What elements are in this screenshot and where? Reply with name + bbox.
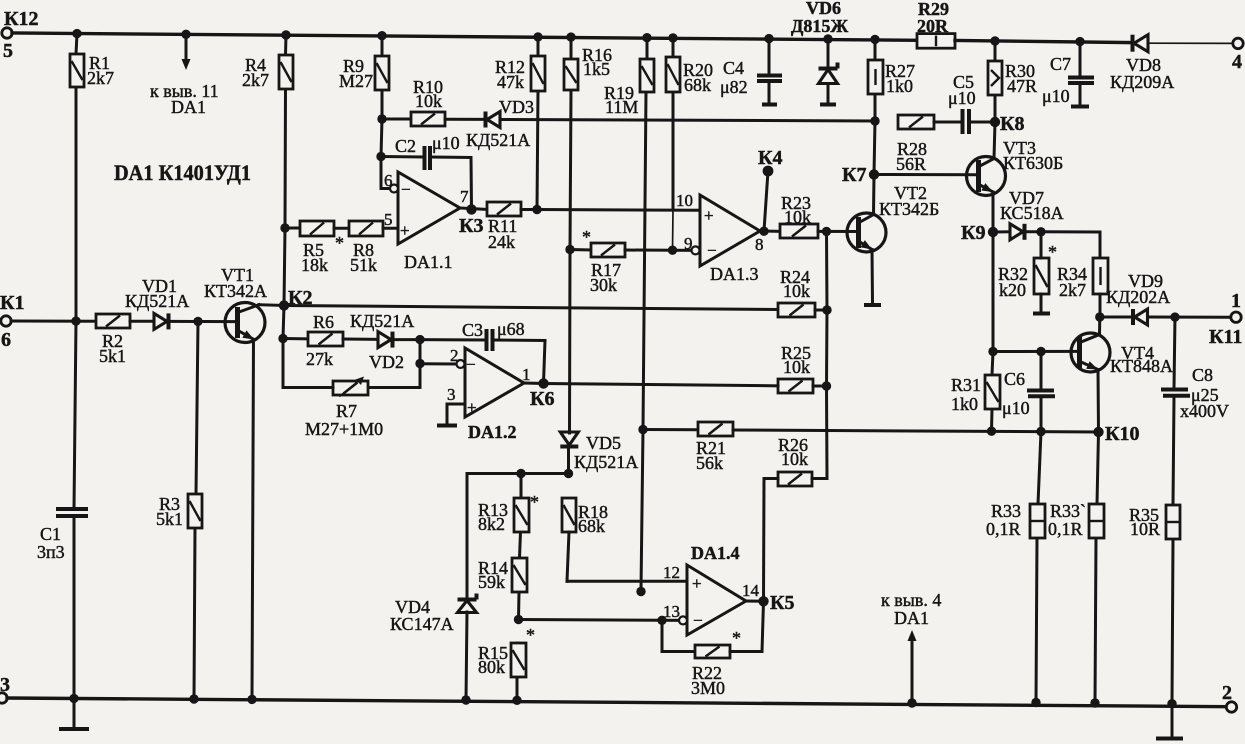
- svg-text:к выв. 4: к выв. 4: [881, 590, 941, 610]
- wire R6 left: [283, 337, 308, 340]
- svg-text:К3: К3: [459, 215, 484, 237]
- capacitor C1 3п3: [37, 509, 88, 562]
- wire C5 to K8: [970, 121, 995, 124]
- wire R7 left corner: [283, 386, 333, 389]
- resistor R5 18k: [300, 221, 344, 275]
- wire bottom bus: [7, 698, 1227, 707]
- wire C2 left: [381, 155, 423, 159]
- node junction VD5/R18/R13 wire: [564, 469, 573, 478]
- node junction R33` / bottom bus: [1090, 698, 1099, 707]
- diode VD2 КД521А: [350, 311, 414, 372]
- svg-text:КТ630Б: КТ630Б: [1003, 153, 1063, 173]
- node junction VD6/top bus: [823, 34, 832, 43]
- terminal 3: [0, 674, 10, 703]
- svg-text:μ10: μ10: [1042, 86, 1070, 106]
- wire DA1.1 output: [460, 187, 487, 209]
- svg-text:14: 14: [742, 581, 760, 600]
- terminal 1 (K11): [1209, 290, 1242, 348]
- node junction R20/top bus: [668, 33, 677, 42]
- svg-text:5: 5: [3, 40, 13, 62]
- wire R33` branch: [1095, 432, 1099, 703]
- resistor R9 М27: [339, 56, 389, 91]
- resistor R6 27k: [306, 312, 343, 369]
- wire VD6 branch: [827, 39, 830, 103]
- node junction R34/VD9/VT4 collector: [1095, 312, 1104, 321]
- svg-text:51k: 51k: [350, 255, 377, 275]
- svg-text:−: −: [401, 180, 411, 199]
- wire VT2 emitter: [860, 240, 873, 303]
- svg-text:5: 5: [384, 210, 393, 229]
- svg-text:8k2: 8k2: [478, 514, 505, 534]
- transistor VT1 КТ342А: [204, 265, 267, 343]
- svg-text:DA1: DA1: [171, 97, 206, 117]
- resistor R4 2k7: [242, 55, 293, 90]
- svg-text:C7: C7: [1050, 54, 1071, 74]
- wire R33 branch: [1036, 432, 1041, 703]
- diode VD7 КС518А: [1000, 188, 1064, 240]
- svg-text:C2: C2: [395, 136, 416, 156]
- resistor R21 56k: [696, 422, 733, 473]
- terminal K1 (pin 6): [0, 292, 25, 351]
- wire R17 to DA1.3 pin9: [625, 234, 693, 253]
- node junction VD4 / bottom bus: [461, 695, 470, 704]
- svg-text:КД521А: КД521А: [125, 291, 189, 311]
- svg-text:12: 12: [663, 563, 680, 582]
- ground stub below VD6: [820, 103, 836, 107]
- svg-text:C8: C8: [1192, 365, 1213, 385]
- resistor R7 М27+1М0: [305, 381, 383, 439]
- node K7: [842, 164, 879, 186]
- wire VD2 to C3 junction: [394, 338, 420, 341]
- svg-text:*: *: [526, 625, 535, 645]
- svg-text:5k1: 5k1: [156, 509, 183, 529]
- diode VD9 КД202А: [1106, 271, 1170, 325]
- svg-text:56k: 56k: [696, 453, 723, 473]
- wire R21 left: [643, 428, 698, 431]
- svg-text:C1: C1: [40, 524, 61, 544]
- svg-text:80k: 80k: [478, 657, 505, 677]
- wire R12 vertical line: [537, 37, 538, 210]
- resistor R24 10k: [778, 267, 815, 317]
- svg-text:C6: C6: [1004, 369, 1025, 389]
- resistor R33 0,1R: [986, 501, 1045, 539]
- svg-text:10k: 10k: [783, 357, 810, 377]
- resistor R35 10R: [1129, 505, 1180, 539]
- resistor R3 5k1: [156, 494, 202, 529]
- wire K6 to R25 (long line): [544, 384, 779, 386]
- svg-text:+: +: [400, 221, 410, 240]
- svg-text:К6: К6: [530, 388, 555, 410]
- node junction C1 line / bottom bus: [69, 694, 78, 703]
- svg-text:К5: К5: [770, 592, 795, 614]
- wire DA1.3 pin9 circle: [692, 246, 700, 254]
- svg-text:68k: 68k: [684, 75, 711, 95]
- svg-text:18k: 18k: [301, 255, 328, 275]
- node junction VT4 base line: [988, 347, 997, 356]
- diode VD5 КД521А: [560, 432, 638, 472]
- diode VD3 КД521А: [466, 97, 534, 150]
- node K4: [758, 147, 783, 176]
- wire feedback loop R22: [662, 620, 695, 651]
- wire R7 right: [368, 386, 420, 389]
- svg-text:6: 6: [1, 329, 11, 351]
- resistor R15 80k: [478, 625, 535, 677]
- capacitor C4 μ82: [720, 58, 782, 97]
- node K10: [1093, 423, 1139, 445]
- svg-text:R6: R6: [313, 312, 334, 332]
- resistor R17 30k: [590, 243, 625, 295]
- svg-text:8: 8: [755, 235, 764, 254]
- wire VT2 collector: [860, 175, 874, 223]
- terminal 2: [1222, 682, 1237, 712]
- wire DA1.2 output: [522, 365, 544, 384]
- node junction C8 tap: [1170, 312, 1179, 321]
- svg-text:R7: R7: [336, 401, 357, 421]
- svg-text:k20: k20: [999, 280, 1026, 300]
- svg-text:КД521А: КД521А: [350, 311, 414, 331]
- svg-text:КТ848А: КТ848А: [1110, 356, 1173, 376]
- op-amp DA1.3: [700, 195, 760, 284]
- node junction C6 bottom: [1036, 427, 1045, 436]
- svg-text:C4: C4: [723, 58, 744, 78]
- wire VD8 to terminal 4: [1150, 42, 1233, 44]
- svg-text:VD3: VD3: [499, 97, 534, 117]
- node junction R24 / R23-R26 line: [822, 305, 831, 314]
- node junction R19/top bus: [642, 33, 651, 42]
- wire DA1.1 pin6 input: [381, 171, 398, 193]
- node K6: [530, 378, 555, 410]
- wire R20 vertical line: [671, 38, 675, 250]
- svg-text:DA1.3: DA1.3: [710, 264, 759, 284]
- wire R25 right: [813, 385, 827, 388]
- resistor R30 47R: [988, 61, 1037, 96]
- wire R27 vertical line: [874, 39, 875, 174]
- svg-text:КС518А: КС518А: [1000, 203, 1064, 223]
- svg-text:КТ342Б: КТ342Б: [879, 199, 939, 219]
- svg-text:К11: К11: [1209, 326, 1242, 348]
- zener diode VD4 КС147А: [390, 594, 477, 635]
- wire R8 to DA1.1 pin5: [383, 210, 398, 229]
- wire top bus right segment: [955, 41, 1132, 43]
- svg-text:10k: 10k: [781, 449, 808, 469]
- wire R2 to VD1: [130, 320, 154, 323]
- svg-text:μ82: μ82: [720, 77, 748, 97]
- svg-text:C3: C3: [462, 320, 483, 340]
- svg-text:2k7: 2k7: [242, 70, 269, 90]
- resistor R25 10k: [778, 343, 813, 393]
- wire R23-R26 vertical line: [825, 231, 829, 478]
- node junction C6 top: [1036, 347, 1045, 356]
- wire K1 to R2: [11, 320, 96, 323]
- svg-text:10R: 10R: [1130, 519, 1160, 539]
- node junction C7/top bus: [1075, 37, 1084, 46]
- wire VD1 to VT1 base: [170, 320, 236, 323]
- resistor R31 1k0: [951, 375, 1000, 414]
- svg-text:1: 1: [522, 365, 531, 384]
- svg-text:μ10: μ10: [948, 88, 976, 108]
- node junction R4/top bus: [281, 30, 290, 39]
- node K9: [961, 222, 998, 244]
- svg-text:11М: 11М: [605, 97, 638, 117]
- node junction R9/top bus: [377, 31, 386, 40]
- svg-text:4: 4: [1232, 51, 1242, 73]
- svg-text:М27+1М0: М27+1М0: [305, 419, 383, 439]
- wire R32 bottom + stub: [1033, 294, 1050, 314]
- svg-text:КД202А: КД202А: [1106, 287, 1170, 307]
- diode VD8 КД209А: [1110, 35, 1174, 92]
- svg-text:56R: 56R: [896, 154, 926, 174]
- node junction DA1.3 output / K4: [759, 227, 768, 236]
- svg-text:10: 10: [676, 191, 693, 210]
- resistor R13 8k2: [478, 492, 539, 534]
- node junction R23 right: [822, 227, 831, 236]
- wire R28 to C5: [934, 121, 961, 124]
- svg-text:R33: R33: [991, 501, 1021, 521]
- svg-text:1k5: 1k5: [583, 59, 610, 79]
- svg-text:*: *: [732, 628, 741, 648]
- node junction R25 / R23-R26 line: [822, 381, 831, 390]
- wire R7 branch vertical: [419, 364, 422, 388]
- svg-text:Д815Ж: Д815Ж: [791, 16, 848, 36]
- node junction K1 wire / R1 line: [71, 316, 80, 325]
- svg-text:24k: 24k: [488, 232, 515, 252]
- svg-text:1: 1: [1231, 290, 1241, 312]
- wire C8 branch: [1172, 317, 1175, 736]
- diode VD1 КД521А: [125, 276, 189, 329]
- wire DA1.4 output: [742, 581, 764, 601]
- svg-text:КД209А: КД209А: [1110, 72, 1174, 92]
- svg-text:К4: К4: [758, 147, 783, 169]
- node K3 (DA1.1 output): [459, 204, 484, 237]
- capacitor C2 μ10: [395, 133, 460, 170]
- resistor R18 68k: [562, 498, 608, 536]
- svg-text:μ68: μ68: [497, 319, 525, 339]
- resistor R23 10k: [780, 193, 818, 238]
- resistor R32 k20: [998, 242, 1057, 300]
- svg-text:2: 2: [1222, 682, 1232, 704]
- arrow to pin 11 DA1: [150, 30, 219, 117]
- node junction R11/R12: [532, 205, 541, 214]
- svg-text:10k: 10k: [783, 281, 810, 301]
- svg-text:−: −: [693, 611, 703, 630]
- wire K4 to output: [764, 171, 768, 231]
- wire K9 line down to R31: [992, 232, 994, 431]
- svg-text:+: +: [704, 206, 714, 225]
- capacitor C3 μ68: [462, 319, 525, 351]
- resistor R10 10k: [411, 77, 445, 126]
- node junction R12/top bus: [533, 32, 542, 41]
- svg-text:КС147А: КС147А: [390, 614, 454, 634]
- ground stub below C7: [1071, 105, 1089, 109]
- node junction R1/top bus: [72, 29, 81, 38]
- wire R16 vertical line: [569, 37, 572, 473]
- adjustment arrow on R7: [340, 377, 364, 397]
- wire R26 left corner to K5: [764, 479, 779, 602]
- ground stub below C8 line: [1156, 737, 1183, 741]
- node junction R16/R17: [565, 245, 574, 254]
- wire VT4 emitter: [1081, 361, 1099, 432]
- wire VD7 to R32 junction: [1025, 230, 1041, 233]
- svg-text:3: 3: [0, 674, 10, 696]
- wire R32 top: [1040, 232, 1043, 258]
- wire R5 left: [285, 227, 300, 230]
- svg-text:К12: К12: [4, 8, 39, 30]
- wire DA1.2 pin3 + ground: [437, 385, 465, 426]
- svg-text:10k: 10k: [784, 207, 811, 227]
- wire C2 to DA1.1 output: [431, 157, 472, 209]
- resistor R20 68k: [666, 57, 713, 95]
- op-amp DA1.1: [398, 172, 460, 272]
- svg-text:VD5: VD5: [586, 433, 621, 453]
- resistor R22 3М0: [691, 628, 741, 698]
- wire VD3 to R28 junction (long line): [500, 120, 875, 122]
- wire VT3 collector: [980, 159, 994, 167]
- wire R21 to K10 (long line): [733, 430, 1099, 432]
- svg-text:27k: 27k: [306, 349, 333, 369]
- svg-text:К8: К8: [1000, 113, 1025, 135]
- svg-text:DA1.4: DA1.4: [691, 543, 740, 563]
- svg-text:DA1 К1401УД1: DA1 К1401УД1: [114, 160, 251, 185]
- wire K7 to VT3 base: [874, 173, 978, 176]
- capacitor C6 μ10: [1002, 369, 1055, 418]
- resistor R1 2k7: [70, 53, 114, 88]
- wire to DA1.2 pin2: [420, 346, 465, 368]
- resistor R28 56R: [896, 115, 934, 174]
- wire R22 to K5: [730, 601, 764, 651]
- wire R19 vertical line: [641, 38, 647, 590]
- svg-text:DA1.1: DA1.1: [404, 252, 453, 272]
- capacitor C8 μ25 x400V: [1161, 365, 1229, 421]
- svg-text:10k: 10k: [415, 91, 442, 111]
- resistor R14 59k: [478, 558, 527, 592]
- ground stub below C4: [762, 103, 777, 107]
- capacitor C5 μ10: [948, 72, 976, 134]
- svg-text:КД521А: КД521А: [574, 452, 638, 472]
- svg-text:VD2: VD2: [369, 352, 404, 372]
- svg-text:2k7: 2k7: [87, 68, 114, 88]
- wire R9 vertical line: [381, 36, 382, 189]
- wire VT1 collector: [239, 305, 284, 312]
- node junction R19 line end (DA1.4 pin12 wire): [636, 587, 645, 596]
- node junction R14/R15 (pin13 wire): [514, 615, 523, 624]
- node junction R20/pin9 wire: [668, 246, 677, 255]
- node junction R27/top bus: [870, 35, 879, 44]
- wire to R34 corner: [1041, 232, 1100, 258]
- svg-text:R33`: R33`: [1050, 501, 1086, 521]
- svg-text:6: 6: [384, 171, 393, 190]
- resistor R11 24k: [487, 202, 521, 252]
- terminal 4: [1232, 38, 1243, 73]
- svg-text:К10: К10: [1105, 423, 1140, 445]
- svg-text:R31: R31: [951, 375, 981, 395]
- wire R24 right: [815, 309, 827, 312]
- svg-text:68k: 68k: [578, 516, 605, 536]
- ground stub below C1: [59, 727, 89, 731]
- wire R13-R14-R15 chain: [517, 474, 521, 701]
- resistor R27 1k0: [868, 60, 915, 96]
- svg-text:0,1R: 0,1R: [1048, 519, 1083, 539]
- resistor R2 5k1: [96, 314, 130, 366]
- svg-text:3М0: 3М0: [691, 678, 725, 698]
- node junction R3 / bottom bus: [189, 694, 198, 703]
- svg-text:59k: 59k: [478, 572, 505, 592]
- wire pin2 branch: [419, 340, 422, 364]
- ground stub below VT2 emitter: [864, 303, 881, 307]
- svg-text:*: *: [1048, 242, 1057, 262]
- svg-text:7: 7: [460, 187, 469, 206]
- op-amp DA1.2: [465, 348, 524, 442]
- svg-text:+: +: [467, 398, 477, 417]
- wire C4 branch: [768, 39, 771, 103]
- svg-text:47k: 47k: [497, 72, 524, 92]
- resistor R8 51k: [349, 221, 383, 275]
- node junction R13 top: [516, 469, 525, 478]
- svg-text:0,1R: 0,1R: [986, 519, 1021, 539]
- wire R1/C1 vertical line: [74, 34, 77, 727]
- transistor VT4 КТ848А: [1071, 333, 1173, 376]
- wire R6 to VD2: [343, 338, 378, 341]
- wire R4/K2 vertical line: [283, 35, 286, 388]
- wire VD4 branch: [466, 474, 467, 701]
- wire pin13 line: [519, 602, 684, 621]
- node junction R31 bottom: [987, 427, 996, 436]
- wire R18 bottom to DA1.4 pin12: [567, 532, 687, 582]
- wire C3 to K6: [494, 340, 546, 384]
- wire DA1.3 output: [755, 231, 780, 254]
- wire R10 left: [382, 118, 411, 121]
- node junction VD2/C3/R7: [415, 335, 424, 344]
- node junction R6 tap: [278, 334, 287, 343]
- node junction R10 tap: [377, 114, 386, 123]
- svg-text:−: −: [707, 241, 717, 260]
- wire R11 to R12 junction: [521, 208, 537, 211]
- node K8: [990, 113, 1025, 135]
- node junction R19/R21: [638, 425, 647, 434]
- resistor R29 20R (in top bus): [917, 0, 955, 48]
- node junction R16/top bus: [566, 32, 575, 41]
- svg-text:КД521А: КД521А: [466, 130, 530, 150]
- resistor R26 10k: [778, 435, 812, 486]
- node junction VD7/R32/R34: [1036, 227, 1045, 236]
- svg-text:x400V: x400V: [1180, 401, 1229, 421]
- wire R5-R8: [334, 227, 349, 230]
- svg-text:К7: К7: [842, 164, 867, 186]
- wire R10 to VD3: [445, 118, 486, 121]
- resistor R16 1k5: [564, 45, 612, 90]
- svg-text:М27: М27: [339, 71, 373, 91]
- wire C6 branch: [1040, 352, 1043, 432]
- wire K2 to R24 (long line): [284, 306, 778, 310]
- node junction C4/top bus: [764, 34, 773, 43]
- svg-text:47R: 47R: [1007, 76, 1037, 96]
- wire VD9 to K11 terminal: [1148, 316, 1231, 319]
- node K5: [758, 592, 794, 614]
- wire VT4 base line: [993, 350, 1079, 353]
- svg-text:*: *: [530, 492, 539, 512]
- resistor R12 47k: [495, 56, 545, 92]
- node junction VT1 emitter / bottom bus: [247, 695, 256, 704]
- svg-text:30k: 30k: [590, 275, 617, 295]
- wire K9 to VD7: [993, 230, 1010, 233]
- wire R3 vertical line: [194, 321, 198, 699]
- wire DA1.4 pin13 circle: [679, 616, 687, 624]
- svg-text:*: *: [335, 233, 344, 253]
- transistor VT2 КТ342Б: [847, 183, 939, 252]
- wire R23 to VT2 base: [818, 230, 858, 233]
- label DA1 К1401УД1: [114, 160, 251, 185]
- svg-text:+: +: [692, 574, 702, 593]
- arrow to pin 4 DA1: [881, 590, 941, 708]
